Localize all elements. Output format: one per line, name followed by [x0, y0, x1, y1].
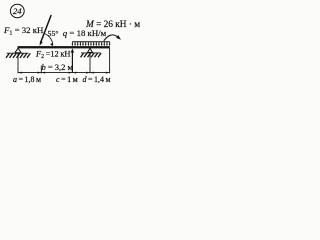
middle support triangle	[88, 48, 93, 52]
middle support hatching	[81, 53, 102, 57]
dimension tick at left support	[17, 53, 19, 73]
moment M curved arrow	[104, 35, 118, 41]
svg-text:a = 1,8 м: a = 1,8 м	[13, 75, 41, 84]
left support ground line	[7, 52, 29, 54]
moment arrowhead	[116, 35, 121, 40]
force F2 up arrow shaft	[71, 50, 73, 73]
problem number badge 24	[10, 4, 24, 17]
angle arc arrowhead	[50, 43, 53, 46]
dimension line	[18, 72, 110, 74]
force F1 line	[41, 15, 51, 42]
left support hatching	[6, 53, 30, 57]
svg-text:b = 3,2 м: b = 3,2 м	[42, 62, 74, 72]
dimension arrowheads	[18, 72, 109, 74]
force F1 arrowhead	[40, 41, 43, 46]
svg-text:F1 = 32 кН: F1 = 32 кН	[3, 25, 44, 36]
dimension tick under F1	[40, 66, 42, 74]
left pinned support triangle	[15, 48, 21, 53]
dimension tick under middle support	[89, 53, 91, 73]
svg-text:M = 26 кН · м: M = 26 кН · м	[85, 20, 140, 30]
svg-text:F2 =12 кН: F2 =12 кН	[35, 50, 70, 60]
dimension tick at right beam end	[109, 48, 111, 73]
middle support ground line	[81, 52, 101, 54]
svg-text:55°: 55°	[48, 29, 59, 38]
distributed load q band	[72, 42, 111, 47]
svg-text:c = 1 м: c = 1 м	[56, 75, 78, 84]
svg-text:d = 1,4 м: d = 1,4 м	[83, 75, 111, 84]
angle arc 55deg	[44, 34, 53, 46]
force F2 arrowhead	[71, 48, 74, 52]
beam	[18, 46, 110, 48]
svg-text:24: 24	[13, 6, 22, 16]
